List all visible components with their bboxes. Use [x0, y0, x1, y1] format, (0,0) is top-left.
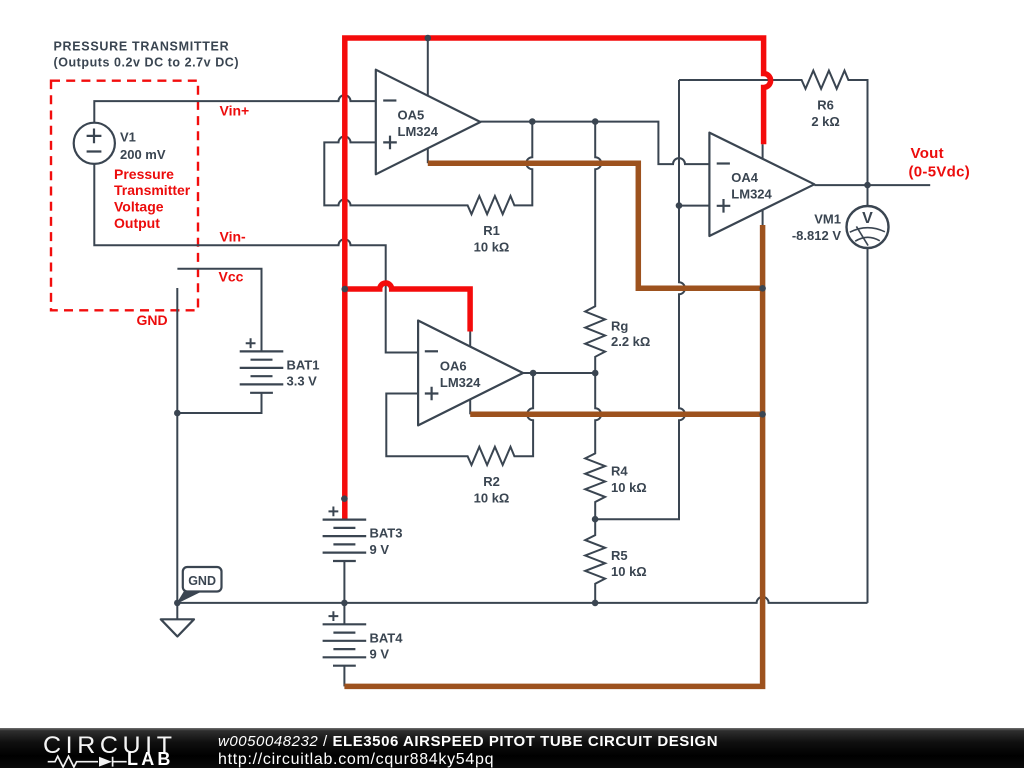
svg-text:BAT1: BAT1 — [287, 357, 320, 372]
footer bar — [0, 728, 1024, 768]
svg-text:9 V: 9 V — [370, 647, 390, 662]
svg-text:Pressure: Pressure — [114, 166, 174, 182]
op-amp OA6 — [418, 321, 523, 426]
svg-text:OA6: OA6 — [440, 359, 467, 374]
wire Vin+ (V1 top to OA5 minus input, hop over red) — [94, 95, 376, 123]
op-amp OA4 — [709, 133, 814, 236]
junction: OA5 output / R1 feedback — [529, 118, 536, 125]
wire OA4 plus stub — [679, 205, 709, 207]
footer text — [218, 733, 718, 750]
svg-text:Vin-: Vin- — [220, 228, 247, 244]
wire brown OA4 V- down to bottom rail to BAT4 minus — [344, 225, 762, 686]
wire OA6 output — [523, 372, 595, 374]
junction: OA4 plus input tap — [676, 202, 683, 209]
svg-text:(0-5Vdc): (0-5Vdc) — [909, 163, 971, 180]
wire OA4 bottom power stub — [762, 210, 764, 225]
wire OA6 plus loop + resistor R2 + feedback to output — [386, 373, 533, 465]
svg-text:3.3 V: 3.3 V — [287, 374, 318, 389]
wire OA4 top power stub — [762, 144, 764, 159]
svg-text:Output: Output — [114, 215, 160, 231]
wire + resistor R4 + resistor R5 chain — [585, 373, 605, 603]
svg-text:Voltage: Voltage — [114, 199, 164, 215]
wire ground rail (hop over brown vertical) — [177, 597, 867, 603]
wire red branch to OA6 V+ (hop over grey vertical) — [345, 283, 470, 332]
svg-text:LM324: LM324 — [398, 124, 439, 139]
svg-text:2 kΩ: 2 kΩ — [811, 114, 840, 129]
wire R6 branch + resistor R6 + down to OA4 output — [679, 71, 868, 186]
wire brown OA6 V- branch — [470, 412, 762, 418]
junction: red rail tee to OA6 V+ — [342, 286, 349, 293]
title text — [54, 40, 240, 70]
svg-text:OA5: OA5 — [398, 108, 425, 123]
svg-text:9 V: 9 V — [370, 542, 390, 557]
junction: brown net at OA6 V- branch — [759, 411, 766, 418]
op-amp OA5 — [376, 70, 481, 175]
junction: OA6 output / R2 feedback — [530, 370, 537, 377]
wire OA4 output / Vout — [814, 184, 930, 186]
GND net label tag — [177, 567, 221, 603]
svg-text:LM324: LM324 — [440, 375, 481, 390]
wire + resistor Rg chain (OA5 output down to OA6 output) — [585, 122, 605, 373]
junction: brown net at OA4 V- — [759, 285, 766, 292]
svg-text:R2: R2 — [483, 474, 500, 489]
svg-text:-8.812 V: -8.812 V — [792, 228, 841, 243]
svg-text:Transmitter: Transmitter — [114, 182, 191, 198]
svg-text:LM324: LM324 — [731, 186, 772, 201]
svg-text:V1: V1 — [120, 130, 136, 145]
svg-text:(Outputs 0.2v DC to 2.7v DC): (Outputs 0.2v DC to 2.7v DC) — [54, 56, 240, 70]
wire OA6 bottom power stub — [469, 399, 471, 414]
svg-text:2.2 kΩ: 2.2 kΩ — [611, 334, 650, 349]
svg-text:BAT4: BAT4 — [370, 630, 404, 645]
svg-text:GND: GND — [188, 574, 216, 588]
wire GND left rail — [176, 288, 178, 603]
svg-text:10 kΩ: 10 kΩ — [611, 480, 647, 495]
junction: red rail at BAT3 plus — [341, 495, 348, 502]
junction: BAT1 minus on GND rail — [174, 410, 181, 417]
svg-text:Vout: Vout — [911, 145, 944, 162]
wire BAT1 minus to left rail — [177, 393, 261, 413]
ground symbol — [161, 603, 194, 637]
wire OA6 top power stub — [469, 331, 471, 346]
svg-text:Rg: Rg — [611, 318, 628, 333]
battery BAT3 — [323, 507, 403, 562]
svg-text:Vin+: Vin+ — [220, 102, 250, 118]
junction: R4/R5 divider tap — [592, 516, 599, 523]
junction: OA6 output / Rg bottom / R4 top — [592, 370, 599, 377]
voltage source V1 — [74, 123, 166, 164]
wire red Vcc rail (top + down to BAT3) — [345, 38, 771, 520]
svg-text:V: V — [862, 210, 873, 227]
logo resistor-diode graphic — [48, 756, 98, 767]
wire BAT4 bottom stub — [343, 666, 345, 687]
svg-text:R6: R6 — [817, 98, 834, 113]
wire Vcc (to BAT1 plus) — [177, 269, 261, 352]
node Vout label — [909, 145, 971, 180]
svg-text:PRESSURE TRANSMITTER: PRESSURE TRANSMITTER — [54, 40, 230, 54]
svg-text:GND: GND — [137, 312, 168, 328]
junction: OA5 output / Rg top — [592, 118, 599, 125]
svg-text:R1: R1 — [483, 223, 500, 238]
wire OA5 top power stub — [427, 38, 429, 96]
svg-text:Vcc: Vcc — [219, 268, 244, 284]
wire VM1 bottom to ground rail — [867, 248, 869, 603]
junction: BAT3/BAT4 on GND rail — [341, 600, 348, 607]
svg-text:R4: R4 — [611, 464, 628, 479]
wire vertical x=679 (R6 line down to R4/R5 junction) — [595, 80, 685, 519]
svg-text:OA4: OA4 — [731, 170, 759, 185]
svg-text:10 kΩ: 10 kΩ — [474, 490, 510, 505]
wire VM1 top stub — [867, 185, 869, 206]
wire BAT3 bottom stub — [343, 561, 345, 603]
wire Vin- (V1 bottom to OA6 minus input) — [94, 163, 418, 352]
wire BAT4 top stub — [343, 603, 345, 624]
svg-text:10 kΩ: 10 kΩ — [611, 564, 647, 579]
wire OA5 output to OA4 minus input — [480, 122, 709, 165]
pressure transmitter dashed box — [51, 81, 198, 311]
wire OA5 plus loop + resistor R1 + feedback to output — [324, 122, 532, 215]
junction: OA4 output / R6 / VM1 — [864, 182, 871, 189]
wire OA5 bottom power stub — [427, 148, 429, 163]
annotation Pressure Transmitter Voltage Output — [114, 166, 191, 231]
svg-text:10 kΩ: 10 kΩ — [474, 240, 510, 255]
junction: ground node — [174, 600, 181, 607]
wire brown OA5 V- to OA4 V- — [428, 163, 763, 288]
junction: OA5 V+ pin on red rail — [425, 35, 432, 42]
svg-text:VM1: VM1 — [814, 212, 841, 227]
battery BAT1 — [240, 338, 320, 393]
CircuitLab logo — [43, 732, 177, 760]
svg-text:200 mV: 200 mV — [120, 147, 166, 162]
svg-text:BAT3: BAT3 — [370, 526, 403, 541]
voltmeter VM1 — [792, 206, 889, 248]
battery BAT4 — [323, 611, 404, 666]
junction: R5 bottom on GND rail — [592, 600, 599, 607]
svg-text:R5: R5 — [611, 548, 628, 563]
